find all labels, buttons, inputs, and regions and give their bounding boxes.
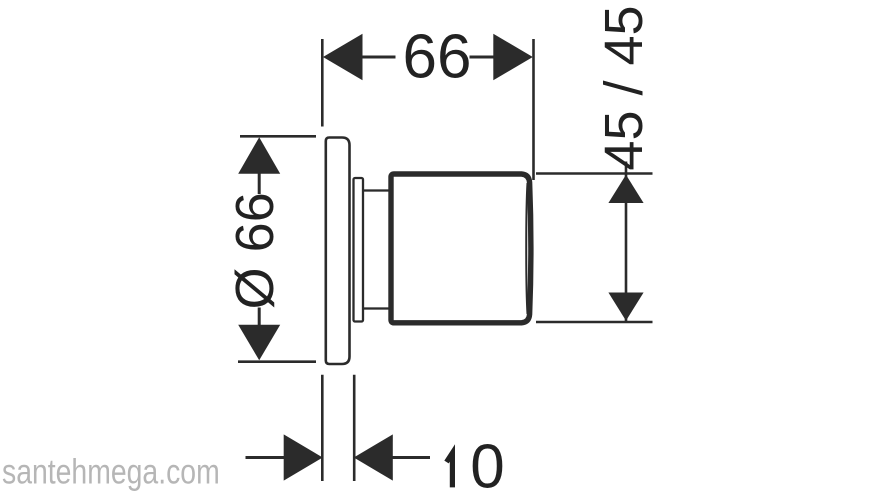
svg-text:66: 66 [403,23,472,92]
svg-text:Ø 66: Ø 66 [225,192,285,309]
svg-text:santehmega.com: santehmega.com [2,451,220,491]
svg-text:45 / 45: 45 / 45 [594,5,654,170]
svg-text:0: 0 [470,433,504,500]
